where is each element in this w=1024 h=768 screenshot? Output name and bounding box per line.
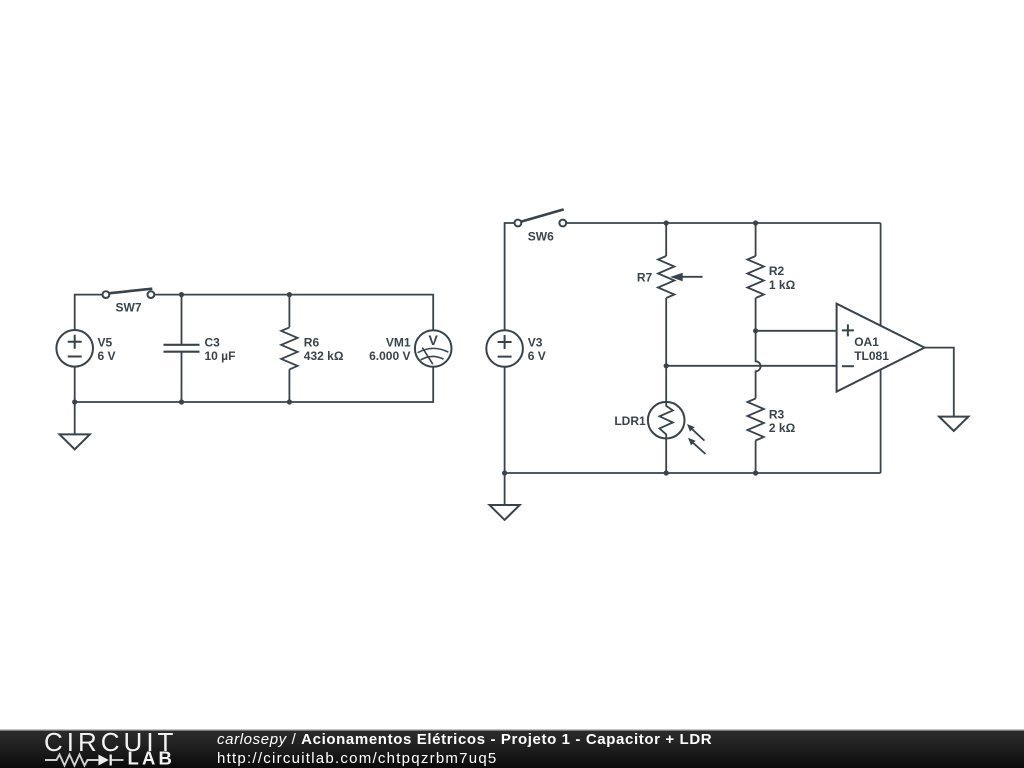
svg-text:V5: V5: [98, 335, 113, 349]
svg-text:TL081: TL081: [854, 349, 889, 363]
switch SW7: [103, 289, 155, 298]
wire: R6 branch: [288, 295, 290, 402]
wire: V3 top lead up to top rail and stub to SW6 left terminal: [505, 223, 515, 330]
wire: right vertical rail passing behind op-amp: [880, 223, 882, 473]
ground symbol of left circuit: [60, 434, 90, 449]
svg-text:R3: R3: [769, 407, 785, 421]
svg-text:SW7: SW7: [115, 301, 141, 315]
svg-text:6.000 V: 6.000 V: [369, 349, 410, 363]
LDR1 light arrow lower: [688, 438, 706, 454]
wire: bottom rail of right circuit: [505, 367, 881, 473]
wire: bottom rail of left circuit: [75, 367, 434, 402]
junction: V3 bottom / ground node: [502, 470, 507, 475]
resistor R2: [747, 256, 763, 298]
svg-text:LAB: LAB: [128, 748, 176, 768]
junction: V5 bottom / ground node: [72, 399, 77, 404]
wire: top rail from SW7 right terminal to VM1 top lead: [154, 295, 433, 331]
svg-text:SW6: SW6: [528, 229, 554, 243]
wire: C3 branch: [181, 295, 183, 402]
wire: op-amp non-inverting input: [756, 330, 837, 332]
junction: R6 bottom node: [287, 399, 292, 404]
junction: R7 top node: [664, 220, 669, 225]
potentiometer R7 wiper arrow: [681, 276, 703, 278]
svg-text:10 µF: 10 µF: [205, 349, 236, 363]
svg-text:R2: R2: [769, 264, 785, 278]
svg-text:V3: V3: [528, 335, 543, 349]
LDR1 light arrow upper: [687, 424, 704, 441]
ground symbol of right circuit: [490, 505, 520, 520]
op-amp OA1 plus input marking: [842, 324, 854, 336]
voltmeter VM1: [415, 330, 452, 367]
svg-text:LDR1: LDR1: [614, 414, 646, 428]
svg-text:2 kΩ: 2 kΩ: [769, 421, 796, 435]
svg-text:1 kΩ: 1 kΩ: [769, 278, 796, 292]
ground symbol at op-amp output: [939, 417, 968, 431]
svg-text:VM1: VM1: [386, 335, 411, 349]
svg-text:6 V: 6 V: [98, 349, 116, 363]
junction: R2 top node: [753, 220, 758, 225]
op-amp OA1 body: [837, 304, 925, 392]
junction: R7/LDR1 node to inverting input: [664, 363, 669, 368]
junction: LDR1 bottom node: [664, 470, 669, 475]
wire: ground stem of right circuit: [504, 473, 506, 505]
junction: R6 top node: [287, 292, 292, 297]
wire: op-amp inverting input from R7 wiper node: [666, 365, 836, 367]
CircuitLab logo: [0, 729, 200, 768]
wire: V5 top lead up to top rail and stub to SW7 left terminal: [75, 295, 103, 331]
junction: R3 bottom node: [753, 470, 758, 475]
op-amp OA1 minus input marking: [842, 365, 854, 367]
photoresistor LDR1: [648, 402, 685, 439]
footer url line: [217, 750, 498, 767]
svg-text:432 kΩ: 432 kΩ: [304, 349, 344, 363]
footer black bar: [0, 729, 1024, 768]
junction: C3 bottom node: [179, 399, 184, 404]
wire: ground stem of left circuit: [74, 402, 76, 434]
footer title line: [217, 731, 712, 748]
svg-text:R6: R6: [304, 335, 320, 349]
wire: R7 branch and LDR1 leads: [665, 223, 667, 473]
potentiometer R7: [658, 256, 674, 298]
wire: top rail from SW6 right terminal to right side: [566, 222, 880, 224]
svg-text:C3: C3: [205, 335, 221, 349]
svg-text:6 V: 6 V: [528, 349, 546, 363]
voltage source V3: [486, 330, 523, 367]
voltage source V5: [56, 330, 93, 367]
junction: C3 top node: [179, 292, 184, 297]
junction: R2/R3 divider node to non-inverting input: [753, 328, 758, 333]
svg-text:OA1: OA1: [854, 335, 879, 349]
potentiometer R7 wiper arrowhead: [670, 273, 683, 281]
svg-text:V: V: [429, 332, 439, 348]
svg-text:R7: R7: [637, 270, 653, 284]
wire: R2/R3 branch with hop over minus-input wire: [756, 223, 761, 473]
resistor R3: [747, 399, 763, 441]
capacitor C3: [164, 345, 200, 352]
switch SW6: [515, 209, 567, 226]
wire: op-amp output to ground: [925, 348, 954, 417]
resistor R6: [281, 327, 297, 369]
